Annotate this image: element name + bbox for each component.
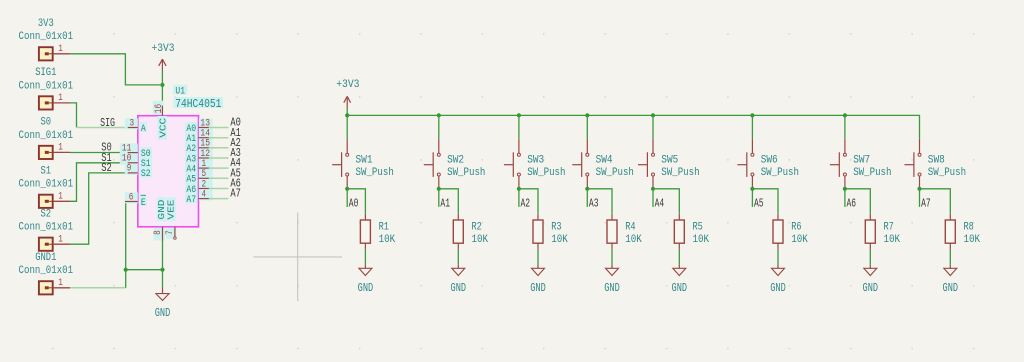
net label A7: [920, 189, 931, 211]
wire U1 pin 14 to label A1: [209, 137, 229, 139]
wire SW6 to R6: [752, 189, 778, 214]
wire R5 to ground: [678, 249, 680, 265]
junction +3V3 rail col 3: [517, 113, 521, 117]
U1 pin 1 (A4) right: [185, 159, 213, 176]
U1 pin 6 (E) left: [125, 192, 147, 209]
svg-text:+3V3: +3V3: [336, 79, 359, 91]
resistor R6 10K: [773, 214, 808, 249]
connector GND1 Conn_01x01: [19, 252, 74, 294]
origin marker crosshair: [253, 213, 342, 302]
switch SW8 SW_Push: [905, 139, 967, 187]
net label A4: [653, 189, 664, 211]
resistor R3 10K: [533, 214, 568, 249]
svg-text:A6: A6: [847, 196, 857, 210]
U1 pin 3 (A) left: [125, 118, 147, 135]
svg-text:10K: 10K: [472, 234, 489, 246]
junction below SW2: [437, 187, 441, 191]
svg-text:A0: A0: [349, 196, 359, 210]
resistor R7 10K: [865, 214, 900, 249]
wire SW5 to R5: [653, 189, 679, 214]
svg-text:1: 1: [58, 192, 63, 203]
svg-text:6: 6: [129, 192, 134, 203]
net label A4: [230, 156, 241, 170]
svg-text:10K: 10K: [379, 234, 396, 246]
switch SW5 SW_Push: [638, 139, 700, 187]
svg-text:SW_Push: SW_Push: [356, 167, 394, 179]
wire R2 to ground: [457, 249, 459, 265]
svg-text:9: 9: [127, 164, 132, 175]
ground GND below R8: [943, 265, 959, 295]
wire rail drop to SW5: [652, 115, 654, 138]
svg-text:SW_Push: SW_Push: [527, 167, 565, 179]
svg-text:R3: R3: [551, 222, 561, 234]
net label S2: [101, 161, 112, 175]
junction below SW1: [345, 187, 349, 191]
wire SW2 to R2: [439, 189, 459, 214]
wire U1 pin 15 to label A2: [209, 147, 229, 149]
svg-text:Conn_01x01: Conn_01x01: [19, 80, 74, 92]
net label SIG: [100, 116, 115, 130]
svg-text:SW7: SW7: [853, 155, 870, 167]
ground GND below R2: [451, 265, 467, 295]
IC U1 74HC4051 body: [138, 116, 199, 227]
wire R8 to ground: [949, 249, 951, 265]
junction +3V3 rail col 1: [345, 113, 349, 117]
wire U1 pin 5 to label A5: [209, 177, 229, 179]
connector S0 Conn_01x01: [19, 117, 74, 159]
svg-text:SW_Push: SW_Push: [661, 167, 699, 179]
junction below SW4: [585, 187, 589, 191]
wire U1 pin 6 E to GND junction: [126, 202, 128, 270]
svg-text:VEE: VEE: [166, 199, 177, 219]
net label A3: [587, 189, 598, 211]
svg-text:A7: A7: [921, 196, 931, 210]
wire rail drop to SW4: [586, 115, 588, 138]
wire rail drop to SW1: [346, 115, 348, 138]
wire SIG1 connector to U1 pin 3 (SIG net): [70, 103, 128, 128]
svg-text:R2: R2: [472, 222, 482, 234]
resistor R5 10K: [674, 214, 709, 249]
net label A6: [230, 177, 241, 191]
net label A5: [230, 166, 241, 180]
wire +3V3 rail: [347, 115, 919, 138]
ground GND below R7: [863, 265, 879, 295]
wire U1 pin 12 to label A3: [209, 157, 229, 159]
junction at +3V3 left: [160, 83, 164, 87]
net label A1: [439, 189, 450, 211]
U1 pin 16 (VCC) top: [153, 101, 165, 116]
junction +3V3 rail col 6: [750, 113, 754, 117]
svg-text:GND: GND: [770, 281, 786, 295]
junction +3V3 rail col 7: [843, 113, 847, 117]
wire SW8 to R8: [920, 189, 951, 214]
junction +3V3 rail col 5: [651, 113, 655, 117]
connector SIG1 Conn_01x01: [19, 67, 74, 109]
net label A2: [230, 136, 241, 150]
svg-text:SW_Push: SW_Push: [596, 167, 634, 179]
U1 pin 7 (VEE) bottom unconnected: [165, 227, 176, 240]
wire 3V3 connector to +3V3 junction: [70, 54, 160, 85]
svg-text:10K: 10K: [625, 234, 642, 246]
svg-text:SW5: SW5: [661, 155, 678, 167]
wire U1 pin 8 GND down to ground: [162, 241, 164, 288]
svg-text:SW8: SW8: [928, 155, 945, 167]
wire SW7 to R7: [845, 189, 870, 214]
net label A5: [752, 189, 763, 211]
resistor R1 10K: [360, 214, 395, 249]
wire GND1 connector to GND junction: [70, 270, 126, 288]
svg-text:SW2: SW2: [447, 155, 464, 167]
wire S0 connector to U1 pin 11: [70, 152, 128, 154]
svg-text:3V3: 3V3: [38, 18, 54, 30]
U1 pin 5 (A5) right: [185, 169, 213, 186]
svg-text:Conn_01x01: Conn_01x01: [19, 31, 74, 43]
ground GND below U1: [155, 288, 171, 320]
ground GND below R3: [530, 265, 546, 295]
U1 pin 8 (GND) bottom: [153, 227, 165, 241]
svg-text:A7: A7: [186, 194, 196, 206]
svg-text:10K: 10K: [693, 234, 710, 246]
junction +3V3 rail col 4: [585, 113, 589, 117]
svg-text:SW_Push: SW_Push: [761, 167, 799, 179]
net label A7: [230, 187, 241, 201]
switch SW2 SW_Push: [424, 139, 486, 187]
junction below SW6: [750, 187, 754, 191]
svg-text:GND: GND: [451, 281, 467, 295]
svg-text:Conn_01x01: Conn_01x01: [19, 130, 74, 142]
ground GND below R6: [770, 265, 786, 295]
wire +3V3 to U1 pin 16 VCC: [161, 85, 163, 106]
U1 pin 4 (A7) right: [185, 189, 213, 206]
ground GND below R4: [604, 265, 620, 295]
junction below SW3: [517, 187, 521, 191]
wire U1 pin 13 to label A0: [209, 127, 229, 129]
switch SW4 SW_Push: [572, 139, 634, 187]
svg-text:1: 1: [58, 234, 63, 245]
svg-text:+3V3: +3V3: [152, 43, 175, 55]
switch SW3 SW_Push: [504, 139, 566, 187]
U1 GND pin name: [156, 197, 167, 221]
wire U1 pin 1 to label A4: [209, 167, 229, 169]
svg-text:R1: R1: [379, 222, 390, 234]
svg-text:74HC4051: 74HC4051: [175, 97, 221, 111]
wire rail drop to SW3: [518, 115, 520, 138]
junction at U1 GND pin wire: [160, 268, 164, 272]
connector S1 Conn_01x01: [19, 166, 74, 208]
resistor R8 10K: [945, 214, 980, 249]
svg-text:R4: R4: [625, 222, 636, 234]
svg-text:7: 7: [165, 230, 176, 235]
connector S2 Conn_01x01: [19, 209, 74, 251]
power +3V3 left: [152, 43, 175, 85]
wire R1 to ground: [364, 249, 366, 265]
svg-text:GND: GND: [155, 306, 171, 320]
svg-text:GND: GND: [530, 281, 546, 295]
svg-text:Conn_01x01: Conn_01x01: [19, 265, 74, 277]
U1 VEE pin name: [166, 197, 177, 221]
U1 pin 14 (A1) right: [185, 129, 213, 146]
resistor R4 10K: [607, 214, 642, 249]
svg-text:8: 8: [153, 230, 164, 235]
junction +3V3 rail col 2: [437, 113, 441, 117]
svg-text:A7: A7: [230, 187, 241, 201]
svg-text:10K: 10K: [884, 234, 901, 246]
junction below SW8: [917, 187, 921, 191]
svg-text:GND: GND: [943, 281, 959, 295]
svg-text:A2: A2: [521, 196, 531, 210]
svg-text:SW4: SW4: [596, 155, 613, 167]
U1 pin 15 (A2) right: [185, 139, 213, 156]
junction at E/GND1 wires: [124, 268, 128, 272]
svg-text:GND: GND: [604, 281, 620, 295]
svg-text:A1: A1: [440, 196, 450, 210]
svg-text:VCC: VCC: [157, 117, 168, 137]
svg-text:4: 4: [202, 189, 207, 200]
svg-text:1: 1: [58, 278, 63, 289]
svg-text:10K: 10K: [791, 234, 808, 246]
svg-text:A5: A5: [754, 196, 764, 210]
svg-text:SW6: SW6: [761, 155, 778, 167]
svg-text:SW3: SW3: [527, 155, 544, 167]
U1 pin 10 (S1) left: [120, 154, 152, 171]
svg-text:SW_Push: SW_Push: [928, 167, 966, 179]
switch SW7 SW_Push: [830, 139, 892, 187]
wire SW3 to R3: [519, 189, 538, 214]
wire S2 connector to U1 pin 9: [70, 173, 128, 244]
wire SW1 to R1: [347, 189, 365, 214]
svg-text:SIG1: SIG1: [35, 67, 57, 79]
switch SW1 SW_Push: [332, 139, 394, 187]
U1 VCC pin name: [157, 116, 168, 140]
svg-text:R5: R5: [693, 222, 703, 234]
svg-text:S1: S1: [41, 166, 52, 178]
svg-text:R8: R8: [964, 222, 974, 234]
svg-text:10K: 10K: [551, 234, 568, 246]
wire R6 to ground: [777, 249, 779, 265]
svg-text:R7: R7: [884, 222, 894, 234]
svg-text:A: A: [141, 123, 146, 135]
svg-text:1: 1: [58, 93, 63, 104]
svg-text:Conn_01x01: Conn_01x01: [19, 222, 74, 234]
U1 pin 11 (S0) left: [120, 143, 152, 160]
svg-text:GND: GND: [672, 281, 688, 295]
ground GND below R5: [672, 265, 688, 295]
U1 pin 12 (A3) right: [185, 149, 213, 166]
ground GND below R1: [358, 265, 374, 295]
net label A0: [347, 189, 358, 211]
svg-text:SW1: SW1: [356, 155, 373, 167]
switch SW6 SW_Push: [737, 139, 799, 187]
svg-text:U1: U1: [175, 85, 185, 97]
svg-text:A3: A3: [589, 196, 599, 210]
svg-text:1: 1: [58, 143, 63, 154]
svg-text:16: 16: [154, 104, 165, 114]
wire rail drop to SW7: [844, 115, 846, 138]
wire S1 connector to U1 pin 10: [70, 163, 128, 202]
svg-text:SIG: SIG: [100, 116, 115, 130]
wire rail drop to SW6: [751, 115, 753, 138]
net label S1: [101, 151, 112, 165]
svg-text:GND: GND: [358, 281, 374, 295]
net label A3: [230, 146, 241, 160]
svg-text:SW_Push: SW_Push: [853, 167, 891, 179]
wire R4 to ground: [611, 249, 613, 265]
junction below SW7: [843, 187, 847, 191]
svg-text:3: 3: [130, 118, 135, 129]
U1 pin 2 (A6) right: [185, 179, 213, 196]
net label A6: [845, 189, 856, 211]
U1 pin 13 (A0) right: [185, 118, 213, 135]
svg-text:E: E: [141, 197, 146, 209]
wire R3 to ground: [537, 249, 539, 265]
svg-text:Conn_01x01: Conn_01x01: [19, 179, 74, 191]
power +3V3 rail: [336, 79, 359, 115]
wire GND junction row: [126, 269, 163, 271]
svg-text:R6: R6: [791, 222, 801, 234]
wire R7 to ground: [869, 249, 871, 265]
resistor R2 10K: [453, 214, 488, 249]
junction below SW5: [651, 187, 655, 191]
wire U1 pin 2 to label A6: [209, 188, 229, 190]
net label A2: [519, 189, 530, 211]
wire U1 pin 4 to label A7: [209, 198, 229, 200]
U1 pin 9 (S2) left: [125, 164, 152, 181]
net label S0: [101, 141, 112, 155]
svg-text:S0: S0: [41, 117, 52, 129]
svg-text:A4: A4: [655, 196, 665, 210]
svg-text:GND: GND: [863, 281, 879, 295]
svg-text:S2: S2: [141, 168, 151, 180]
wire SW4 to R4: [587, 189, 612, 214]
svg-text:S2: S2: [41, 209, 52, 221]
svg-text:10K: 10K: [964, 234, 981, 246]
connector 3V3 Conn_01x01: [19, 18, 74, 60]
svg-text:GND1: GND1: [35, 252, 57, 264]
wire rail drop to SW2: [438, 115, 440, 138]
svg-text:S2: S2: [101, 161, 112, 175]
net label A1: [230, 126, 241, 140]
svg-text:1: 1: [58, 44, 63, 55]
U1 value 74HC4051: [174, 97, 223, 111]
svg-text:SW_Push: SW_Push: [447, 167, 485, 179]
U1 reference U1: [173, 85, 187, 98]
net label A0: [230, 116, 241, 130]
